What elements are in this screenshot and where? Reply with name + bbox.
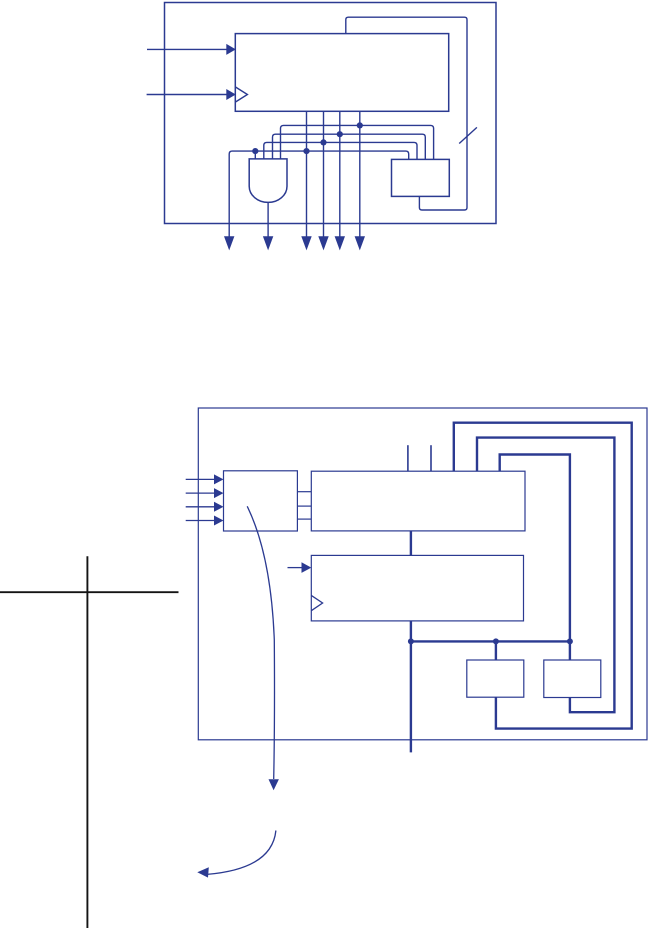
stub to AND gate in0 [254,151,256,159]
bus wire b2 (gate in2 to decoder in2) [273,134,426,159]
state bus (thick horizontal) [411,640,570,642]
junction dot n0a [252,148,258,154]
output arrowhead a2 [263,236,273,250]
bus wire b1 (gate in1 to decoder in1) [264,142,417,159]
output arrowhead a6 [355,236,365,250]
mux input arrow i2 [186,502,224,512]
outer box (top system boundary) [165,3,497,224]
ladder rung r2 [297,518,311,520]
register REG1 (top diagram) [235,34,448,112]
feedback wire (register top to decoder) [346,17,467,210]
output arrowhead a5 [335,236,345,250]
flag box F1 [467,660,524,697]
connector box B to register C (thick) [410,531,412,556]
junction dot d2 [493,638,499,644]
junction dot d3 [567,638,573,644]
output arrowhead a4 [318,236,328,250]
drop wire into flag box F1 [495,641,497,660]
instruction register box B [311,471,525,531]
bus width slash [459,127,477,143]
input arrow (data in) [147,44,236,55]
feedback loop L2 (middle, thick) [477,438,614,713]
wire Q2 vertical [339,111,341,238]
clock triangle [235,87,247,102]
output arrowhead a1 [224,236,234,250]
feedback loop L1 (outer, thick) [454,423,632,729]
bus wire b0 (left branch to decoder in0) [229,151,409,238]
bus wire b3 (gate in3 to decoder in3) [281,125,434,159]
junction dot n0 [303,148,309,154]
clock input arrow [147,89,236,100]
output arrowhead a3 [301,236,311,250]
callout arrowhead 1 [269,779,279,790]
black crosshair horizontal line [0,591,179,593]
callout arc 2 (curved left arrow) [207,831,276,875]
register C input arrow [288,562,312,573]
state register box C [311,555,523,621]
junction dot d1 [408,638,414,644]
register C clock triangle [311,595,322,610]
callout arc 1 (mux to below) [247,506,274,779]
wire Q0 vertical [306,111,308,238]
black crosshair vertical line [86,556,88,928]
AND gate output wire [267,202,269,238]
stub s1 on box B top [407,445,409,471]
junction dot n3 [357,122,363,128]
flag box F2 [544,660,601,698]
ladder rung r0 [297,491,311,493]
mux box M1 [224,471,298,531]
outer box (bottom system boundary) [198,408,647,740]
feedback loop L3 (inner, thick) [500,455,570,661]
wire Q3 vertical [359,111,361,238]
decoder box U2 [392,159,450,196]
callout arrowhead 2 [197,867,209,877]
mux input arrow i1 [186,488,224,498]
junction dot n1 [320,139,326,145]
mux input arrow i0 [186,474,224,484]
junction dot n2 [337,131,343,137]
state register output (thick vertical) [410,621,412,753]
stub s2 on box B top [430,445,432,471]
wire Q1 vertical [323,111,325,238]
ladder rung r1 [297,505,311,507]
mux input arrow i3 [186,516,224,526]
AND gate G1 [249,159,287,203]
